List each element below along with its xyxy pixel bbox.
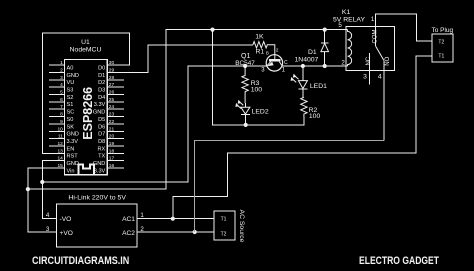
svg-text:LED2: LED2 (252, 108, 269, 115)
svg-text:ESP8266: ESP8266 (81, 87, 95, 140)
svg-text:24: 24 (109, 104, 115, 110)
svg-text:5: 5 (338, 22, 342, 29)
To Plug connector box (432, 34, 453, 62)
wire +5V rail down to LED2 bottom and R2 bottom (213, 30, 305, 125)
node AC2 junction (193, 230, 197, 234)
svg-text:GND: GND (67, 73, 79, 79)
svg-text:21: 21 (109, 126, 115, 132)
wire GND pin14 to Hi-Link -VO (42, 161, 64, 219)
svg-text:Vin: Vin (67, 168, 75, 174)
svg-text:GND: GND (67, 161, 79, 167)
node D1 top junction on +5V rail (323, 28, 327, 32)
svg-text:100: 100 (251, 87, 263, 94)
U1 pin 10 (GND) stub (49, 126, 79, 137)
svg-text:25: 25 (109, 97, 115, 103)
svg-text:S2: S2 (67, 95, 74, 101)
svg-text:20: 20 (109, 134, 115, 140)
wire D0 pin30 to RST pin13 (42, 33, 129, 153)
node LED2 cathode junction (244, 123, 248, 127)
wire Vin pin15 to Hi-Link +VO (28, 168, 65, 232)
svg-text:LED1: LED1 (310, 83, 327, 90)
node LED1 top junction (301, 64, 305, 68)
svg-text:R1: R1 (255, 48, 264, 55)
IC U1 NodeMCU ESP8266 module body (65, 60, 108, 175)
svg-text:1: 1 (60, 60, 63, 66)
svg-text:16: 16 (109, 163, 115, 169)
svg-text:U1: U1 (81, 39, 90, 46)
svg-text:ELECTRO GADGET: ELECTRO GADGET (359, 255, 439, 267)
resistor R1 1K (253, 34, 275, 60)
wire AC1 branch to plug T1 (173, 56, 432, 219)
svg-text:3: 3 (363, 73, 367, 80)
svg-text:T2: T2 (438, 39, 444, 45)
node R3 top junction on emitter line (243, 64, 247, 68)
svg-text:S3: S3 (67, 88, 74, 94)
svg-text:-VO: -VO (60, 216, 72, 223)
transistor Q1 BC547 (235, 47, 288, 73)
svg-text:3.3V: 3.3V (94, 102, 106, 108)
U1 pin 12 (EN) stub (49, 141, 74, 152)
svg-text:D1: D1 (308, 49, 317, 56)
U1 pin 21 (D7) stub (98, 126, 124, 137)
svg-text:22: 22 (109, 119, 115, 125)
svg-text:11: 11 (58, 134, 63, 140)
svg-text:5: 5 (60, 90, 63, 96)
U1 pin 23 (D5) stub (98, 112, 124, 123)
Hi-Link module box (46, 194, 145, 247)
svg-text:A0: A0 (67, 65, 74, 71)
relay NC contact pin 3 (369, 53, 371, 85)
svg-text:TX: TX (98, 154, 105, 160)
svg-text:SK: SK (67, 124, 75, 130)
U1 pin 22 (D6) stub (98, 119, 124, 130)
svg-text:D4: D4 (98, 95, 105, 101)
U1 pin 14 (GND) stub (57, 156, 78, 167)
U1 pin 28 (D2) stub (98, 75, 124, 86)
wire Q1 collector to relay coil (282, 65, 348, 67)
wire AC1 to AC source T1 (137, 218, 214, 220)
svg-text:D3: D3 (98, 88, 105, 94)
svg-text:7: 7 (60, 104, 63, 110)
U1 pin 16 (3.3V) stub (94, 163, 124, 174)
svg-text:Hi-Link 220V to 5V: Hi-Link 220V to 5V (68, 194, 126, 201)
U1 pin 20 (D8) stub (98, 134, 124, 145)
svg-text:26: 26 (109, 90, 115, 96)
svg-text:D0: D0 (98, 65, 105, 71)
AC source connector box (214, 211, 235, 240)
U1 pin 13 (RST) stub (57, 148, 78, 159)
U1 pin 5 (S2) stub (49, 90, 73, 101)
relay coil (348, 30, 352, 66)
svg-text:To Plug: To Plug (431, 27, 453, 34)
svg-text:2: 2 (341, 59, 345, 66)
U1 pin 7 (SC) stub (49, 104, 74, 115)
U1 pin 17 (GND) stub (93, 156, 124, 167)
svg-text:C: C (284, 60, 288, 66)
svg-text:8: 8 (60, 112, 63, 118)
svg-text:23: 23 (109, 112, 115, 118)
svg-text:K1: K1 (342, 9, 351, 16)
svg-text:NC: NC (366, 56, 372, 65)
svg-text:+VO: +VO (60, 230, 73, 237)
U1 pin 27 (D3) stub (98, 82, 124, 93)
resistor R2 100 (301, 97, 321, 120)
svg-text:S0: S0 (67, 117, 74, 123)
svg-text:S1: S1 (67, 102, 74, 108)
U1 pin 2 (GND) stub (49, 68, 79, 79)
wire AC2 to AC source T2 (137, 231, 214, 233)
svg-text:4: 4 (46, 212, 50, 219)
svg-text:18: 18 (109, 148, 115, 154)
node GND junction (40, 180, 44, 184)
U1 pin 30 (D0) stub (98, 60, 114, 71)
U1 pin 19 (RX) stub (98, 141, 124, 152)
svg-text:3: 3 (46, 226, 50, 233)
node Vin junction (26, 187, 30, 191)
svg-text:B: B (266, 50, 269, 55)
wire AC2 branch to relay NO (195, 140, 384, 232)
svg-text:GND: GND (67, 132, 79, 138)
svg-text:EN: EN (67, 146, 75, 152)
wire D1 pin29 to R1 (107, 45, 253, 73)
svg-text:2: 2 (60, 68, 63, 74)
relay NO contact pin 4 (383, 60, 385, 140)
svg-text:27: 27 (109, 82, 115, 88)
svg-text:3.3V: 3.3V (94, 168, 106, 174)
svg-text:D8: D8 (98, 139, 105, 145)
U1 pin 29 (D1) stub (98, 68, 114, 79)
U1 pin 4 (S3) stub (49, 82, 73, 93)
svg-text:SC: SC (67, 110, 75, 116)
svg-text:VU: VU (67, 80, 75, 86)
svg-text:T1: T1 (438, 54, 444, 60)
svg-text:T1: T1 (221, 217, 227, 223)
U1 pin 11 (3.3V) stub (49, 134, 78, 145)
svg-text:12: 12 (57, 141, 63, 147)
svg-text:9: 9 (60, 119, 63, 125)
svg-text:19: 19 (109, 141, 115, 147)
svg-text:1N4007: 1N4007 (295, 57, 319, 64)
svg-text:NodeMCU: NodeMCU (70, 47, 102, 54)
svg-text:D5: D5 (98, 117, 105, 123)
svg-text:6: 6 (60, 97, 63, 103)
wire Vin branch to +5V rail (28, 30, 348, 190)
svg-text:10: 10 (57, 126, 63, 132)
svg-text:GND: GND (93, 161, 105, 167)
svg-text:NO: NO (385, 56, 391, 65)
svg-text:AC2: AC2 (122, 230, 135, 237)
LED LED1 (291, 66, 327, 97)
relay switch lever (376, 46, 384, 60)
wire GND branch to Q1 emitter (42, 66, 266, 182)
svg-text:D7: D7 (98, 132, 105, 138)
svg-text:17: 17 (109, 156, 115, 162)
svg-text:1: 1 (140, 212, 144, 219)
U1 pin 24 (GND) stub (93, 104, 124, 115)
svg-text:3.3V: 3.3V (67, 139, 79, 145)
U1 pin 6 (S1) stub (49, 97, 73, 108)
U1 pin 8 (S0) stub (49, 112, 73, 123)
svg-text:1K: 1K (255, 34, 264, 41)
svg-text:COM: COM (373, 30, 379, 44)
resistor R3 100 (242, 66, 262, 103)
svg-text:4: 4 (60, 82, 63, 88)
svg-text:1: 1 (371, 16, 375, 23)
U1 pin 18 (TX) stub (98, 148, 124, 159)
svg-text:RST: RST (67, 154, 79, 160)
LED LED2 (236, 101, 269, 125)
svg-text:4: 4 (378, 73, 382, 80)
node D1 bottom junction (323, 64, 327, 68)
svg-text:28: 28 (109, 75, 115, 81)
svg-text:D1: D1 (98, 73, 105, 79)
USB connector notch on U1 (79, 165, 95, 175)
svg-text:AC1: AC1 (122, 216, 135, 223)
node AC1 junction (171, 217, 175, 221)
svg-text:3: 3 (60, 75, 63, 81)
svg-text:T2: T2 (221, 231, 227, 237)
svg-text:AC Source: AC Source (238, 210, 245, 243)
U1 pin 25 (3.3V) stub (94, 97, 124, 108)
U1 pin 26 (D4) stub (98, 90, 124, 101)
relay COM wire to plug T2 (376, 14, 432, 46)
relay K1 5V RELAY box (333, 9, 395, 70)
svg-text:100: 100 (309, 113, 321, 120)
svg-text:2: 2 (276, 47, 279, 52)
node +5V rail to LED2 branch (210, 28, 214, 32)
svg-text:CIRCUITDIAGRAMS.IN: CIRCUITDIAGRAMS.IN (32, 255, 129, 267)
U1 pin 15 (Vin) stub (57, 163, 74, 174)
U1 pin 3 (VU) stub (49, 75, 74, 86)
U1 pin 1 (A0) stub (49, 60, 73, 71)
U1 pin 9 (SK) stub (49, 119, 74, 130)
svg-text:D6: D6 (98, 124, 105, 130)
diode D1 1N4007 (295, 30, 329, 66)
svg-text:RX: RX (98, 146, 106, 152)
svg-text:D2: D2 (98, 80, 105, 86)
